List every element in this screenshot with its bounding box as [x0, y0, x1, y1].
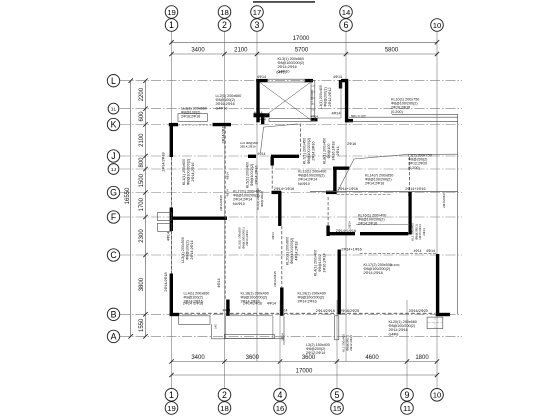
grid line vertical axis x=171.5: [171, 32, 173, 389]
lintel LL1 box at K opening: [178, 114, 207, 122]
svg-text:18: 18: [220, 404, 229, 413]
svg-text:4Φ14: 4Φ14: [271, 232, 275, 240]
svg-text:10: 10: [433, 21, 442, 30]
svg-text:2Φ14+1Φ16: 2Φ14+1Φ16: [341, 247, 361, 251]
svg-text:G4Φ8: G4Φ8: [389, 332, 399, 336]
grid line horizontal axis A: [120, 335, 462, 337]
svg-text:10: 10: [433, 391, 442, 400]
axis circle left A: [107, 330, 119, 342]
svg-text:3600: 3600: [302, 355, 316, 361]
svg-text:17: 17: [253, 8, 262, 17]
right balcony centerline v: [434, 317, 436, 328]
building right edge: [457, 114, 459, 314]
svg-text:2Φ14;2Φ16: 2Φ14;2Φ16: [358, 222, 377, 226]
svg-text:4Φ14: 4Φ14: [267, 302, 276, 306]
grid line horizontal axis C: [120, 254, 462, 256]
wall near axis-3 horizontal: [254, 113, 270, 117]
svg-text:6: 6: [344, 20, 349, 30]
svg-text:2Φ12;2Φ12: 2Φ12;2Φ12: [328, 87, 332, 106]
svg-text:2: 2: [222, 390, 227, 400]
svg-text:1J: 1J: [111, 167, 117, 173]
svg-text:4Φ14: 4Φ14: [226, 189, 230, 197]
svg-text:1: 1: [169, 390, 174, 400]
svg-text:15: 15: [333, 404, 342, 413]
svg-text:2Φ14/2Φ16: 2Φ14/2Φ16: [221, 124, 225, 143]
svg-text:2300: 2300: [139, 229, 145, 243]
svg-text:N4Φ10: N4Φ10: [298, 182, 310, 186]
svg-text:(0.200): (0.200): [408, 166, 420, 170]
wall axis-1 upper: [170, 123, 173, 157]
grid line horizontal axis 1L: [120, 108, 462, 110]
axis circle top 6: [340, 19, 353, 32]
stair box2 bottom edge: [315, 117, 341, 119]
svg-text:3400: 3400: [191, 48, 205, 54]
wall stair box2 top corner: [341, 79, 348, 82]
dim line left spans: [145, 81, 147, 337]
svg-text:2Φ16/2Φ25: 2Φ16/2Φ25: [340, 309, 359, 313]
wall axis-4 upper: [278, 191, 281, 226]
axis circle bottom 11: [401, 402, 414, 415]
svg-text:2: 2: [222, 20, 227, 30]
svg-text:3800: 3800: [139, 277, 145, 291]
axis circle bottom 19: [165, 402, 178, 415]
svg-text:14: 14: [342, 8, 351, 17]
svg-text:9: 9: [405, 390, 410, 400]
svg-text:LL3(1) 200x500: LL3(1) 200x500: [181, 237, 185, 263]
svg-text:Φ8@200(1): Φ8@200(1): [324, 87, 328, 106]
svg-text:2100: 2100: [234, 48, 248, 54]
axis circle bottom 18: [218, 402, 231, 415]
wall K-row right of opening: [213, 123, 232, 126]
svg-text:1700: 1700: [139, 197, 145, 211]
svg-text:4Φ14: 4Φ14: [311, 115, 319, 119]
svg-text:B: B: [111, 309, 117, 319]
grid line vertical axis x=437: [436, 32, 438, 389]
wall F-area wall right part: [360, 232, 408, 235]
svg-text:142: 142: [214, 324, 218, 329]
svg-text:5700: 5700: [295, 48, 309, 54]
svg-text:19: 19: [167, 8, 176, 17]
svg-text:800: 800: [139, 157, 145, 168]
svg-text:2Φ14;2Φ16: 2Φ14;2Φ16: [365, 182, 384, 186]
dim line top total 17000: [172, 41, 438, 43]
wall J-row left: [248, 155, 256, 158]
wall axis-2 bottom: [226, 300, 229, 316]
svg-text:2Φ14/2Φ18: 2Φ14/2Φ18: [162, 152, 166, 171]
svg-text:3600: 3600: [246, 355, 260, 361]
svg-text:2Φ14/2Φ16: 2Φ14/2Φ16: [442, 192, 446, 208]
right balcony centerline h: [427, 322, 443, 324]
svg-text:4Φ14: 4Φ14: [426, 249, 435, 253]
svg-text:5800: 5800: [385, 48, 399, 54]
axis circle left K: [107, 118, 119, 130]
axis circle bottom 15: [331, 402, 344, 415]
svg-text:11: 11: [403, 404, 411, 413]
svg-text:4Φ14: 4Φ14: [257, 75, 266, 79]
axis circle bottom 10: [431, 389, 444, 402]
axis circle bottom 9: [401, 389, 414, 402]
svg-text:4: 4: [278, 390, 283, 400]
svg-text:6Φ14: 6Φ14: [259, 118, 267, 122]
svg-text:4Φ14;2Φ18: 4Φ14;2Φ18: [295, 241, 299, 260]
grid line vertical lower axis x=407: [406, 300, 408, 388]
svg-text:Φ8@100/200(2): Φ8@100/200(2): [290, 238, 294, 265]
svg-text:Φ8@100/200(2): Φ8@100/200(2): [307, 138, 311, 165]
svg-text:2Φ14: 2Φ14: [281, 333, 285, 341]
svg-text:3: 3: [255, 20, 260, 30]
strip below B mid: [335, 316, 339, 340]
B-row dashed beam 3: [284, 312, 337, 314]
svg-text:2Φ14;2Φ16: 2Φ14;2Φ16: [191, 162, 195, 181]
svg-text:16: 16: [276, 404, 285, 413]
svg-text:2Φ14+1Φ16: 2Φ14+1Φ16: [405, 187, 425, 191]
axis circle left 1L: [108, 103, 119, 114]
svg-text:4Φ14: 4Φ14: [332, 112, 341, 116]
A-row stub right: [274, 338, 284, 340]
wall mid vertical near G: [333, 167, 336, 194]
grid line horizontal axis L: [120, 80, 462, 82]
svg-text:16550: 16550: [125, 187, 131, 204]
svg-text:19: 19: [167, 404, 176, 413]
svg-text:4Φ14: 4Φ14: [414, 249, 422, 253]
axis circle left C: [107, 249, 119, 261]
wall J-row stub down: [271, 156, 274, 165]
svg-text:2Φ14+1Φ16: 2Φ14+1Φ16: [274, 187, 294, 191]
svg-text:N4Φ10: N4Φ10: [233, 202, 245, 206]
svg-text:2Φ14/2Φ16: 2Φ14/2Φ16: [316, 309, 335, 313]
svg-text:4Φ14: 4Φ14: [223, 309, 231, 313]
wall jog bottom of mid vertical: [326, 191, 337, 194]
axis circle top 1: [165, 19, 178, 32]
wall jog top of mid vertical: [333, 166, 349, 169]
J-level beam polyline right: [337, 154, 458, 193]
axis circle left B: [107, 308, 119, 320]
dashed hidden wall 4: [271, 166, 273, 189]
svg-text:2Φ14+1Φ16: 2Φ14+1Φ16: [338, 187, 358, 191]
axis-1 protrusion box lower: [158, 223, 172, 231]
dashed hidden wall 6: [300, 124, 302, 156]
B-row dashed beam 2: [230, 312, 279, 314]
svg-text:C: C: [110, 250, 117, 260]
dim line top spans 3400/2100/5700/5800: [172, 53, 438, 55]
wall K-row left segment: [169, 123, 178, 126]
wall axis-10 vertical: [436, 254, 439, 314]
K beam right top: [392, 113, 458, 115]
axis circle top 14: [340, 6, 353, 19]
dashed hidden wall 7: [327, 197, 329, 226]
svg-text:1L: 1L: [111, 106, 117, 112]
svg-text:2Φ14;2Φ14: 2Φ14;2Φ14: [190, 240, 194, 259]
dashed line C-area right: [360, 252, 437, 254]
axis circle bottom 4: [274, 389, 287, 402]
svg-text:L1 200x400: L1 200x400: [310, 89, 314, 104]
wall stair bottom partition corner: [311, 118, 318, 121]
grid line vertical lower axis x=337: [336, 300, 338, 388]
wall stair box2 right stub: [339, 80, 342, 89]
axis circle top 18: [218, 6, 231, 19]
svg-text:KL5(1) 200x400: KL5(1) 200x400: [246, 162, 250, 188]
wall G-row connector: [272, 191, 282, 194]
svg-text:2Φ14;2Φ16: 2Φ14;2Φ16: [255, 165, 259, 184]
svg-text:2Φ16: 2Φ16: [347, 142, 356, 146]
svg-text:KL1(1) 200x600: KL1(1) 200x600: [182, 159, 186, 185]
dashed hidden wall 8: [409, 157, 411, 192]
axis circle left J: [107, 150, 119, 162]
wall stub above F-wall right: [326, 226, 329, 237]
wall axis-6 bottom jog: [347, 119, 353, 122]
svg-text:4Φ14: 4Φ14: [254, 111, 263, 115]
wall axis-1 middle: [170, 208, 173, 232]
svg-text:2Φ14/2Φ18: 2Φ14/2Φ18: [273, 271, 277, 287]
svg-text:2Φ14/2Φ18: 2Φ14/2Φ18: [164, 272, 168, 291]
axis circle left F: [107, 211, 119, 223]
wall near axis-3 vertical jog: [261, 116, 264, 124]
dashed line below G right: [337, 193, 392, 195]
dim line bottom total 17000: [172, 374, 438, 376]
svg-text:1500: 1500: [139, 173, 145, 187]
svg-text:2Φ14 /2Φ16: 2Φ14 /2Φ16: [183, 302, 203, 306]
stair mid partition: [311, 81, 315, 121]
svg-text:1Φ16;1Φ18: 1Φ16;1Φ18: [332, 141, 336, 160]
axis circle top 10: [431, 19, 444, 32]
svg-text:1800: 1800: [415, 355, 429, 361]
svg-text:2Φ14: 2Φ14: [347, 221, 351, 229]
axis circle bottom 5: [331, 389, 344, 402]
svg-text:F: F: [111, 212, 117, 222]
stair box2 right edge: [340, 81, 342, 118]
svg-text:18: 18: [220, 8, 229, 17]
svg-text:600: 600: [139, 111, 145, 122]
axis circle top 17: [251, 6, 264, 19]
dashed hidden wall 2: [171, 231, 173, 274]
svg-text:1Φ16;2Φ14: 1Φ16;2Φ14: [323, 253, 327, 272]
svg-text:2Φ14;2Φ16: 2Φ14;2Φ16: [298, 300, 317, 304]
svg-text:KL4(1) 200x400: KL4(1) 200x400: [314, 250, 318, 276]
grid line vertical axis x=346: [345, 32, 347, 362]
svg-text:5: 5: [335, 390, 340, 400]
svg-text:G4Φ10: G4Φ10: [216, 106, 228, 110]
vertical at x284 below B: [283, 316, 285, 345]
wall J-row main: [271, 155, 299, 158]
svg-text:2Φ14/2Φ18: 2Φ14/2Φ18: [219, 195, 223, 211]
axis circle bottom 2: [218, 389, 231, 402]
wall axis-1 B-row corner: [170, 313, 179, 316]
wall F-row: [170, 216, 227, 219]
title bar fragment top: [253, 1, 315, 3]
lower room outline: [226, 316, 273, 339]
thin line beside x410 wall: [408, 196, 410, 233]
svg-text:(0.200): (0.200): [390, 263, 400, 267]
svg-text:2Φ14;2Φ18: 2Φ14;2Φ18: [364, 271, 383, 275]
svg-text:2Φ16/2Φ20: 2Φ16/2Φ20: [409, 309, 428, 313]
axis circle left 1J: [108, 164, 119, 175]
wall axis-6 upper: [345, 79, 348, 122]
svg-text:2Φ16;2Φ16: 2Φ16;2Φ16: [181, 115, 200, 119]
svg-text:2Φ14+1Φ16: 2Φ14+1Φ16: [336, 229, 356, 233]
wall axis-4 lower: [280, 288, 283, 316]
stair top beam: [268, 79, 306, 82]
K beam right mid: [349, 116, 458, 118]
grid line horizontal axis B: [120, 313, 462, 315]
K opening dashed line: [178, 124, 213, 126]
svg-text:Φ8@100(2): Φ8@100(2): [260, 191, 264, 207]
grid line horizontal axis 1J: [120, 168, 462, 170]
B-row dashed beam 1: [179, 312, 226, 314]
axis-1 protrusion box upper: [158, 212, 172, 220]
svg-text:G: G: [110, 188, 117, 198]
svg-text:1: 1: [169, 20, 174, 30]
svg-text:Φ8@100/2: Φ8@100/2: [318, 254, 322, 272]
axis circle top 2: [218, 19, 231, 32]
svg-text:4Φ14: 4Φ14: [167, 232, 171, 241]
wall vertical at x410: [408, 192, 411, 235]
axis circle top 3: [251, 19, 264, 32]
axis circle bottom 16: [274, 402, 287, 415]
svg-text:4Φ14: 4Φ14: [333, 75, 342, 79]
svg-text:2Φ12;2Φ14: 2Φ12;2Φ14: [306, 351, 325, 355]
grid line vertical axis x=224.5: [224, 32, 226, 389]
svg-text:L: L: [111, 76, 116, 86]
svg-text:5KL3 3/2: 5KL3 3/2: [351, 114, 366, 118]
wall axis-1 lower: [170, 274, 173, 316]
axis circle left L: [107, 75, 119, 87]
svg-text:Φ8@100(2): Φ8@100(2): [186, 240, 190, 259]
axis circle bottom 1: [165, 389, 178, 402]
svg-text:G4Φ10: G4Φ10: [276, 71, 287, 75]
svg-text:KL20(1) 200x600: KL20(1) 200x600: [286, 237, 290, 265]
svg-text:Φ8@100/200(2): Φ8@100/200(2): [187, 159, 191, 186]
wall F-area wall left part: [327, 232, 356, 235]
svg-text:17000: 17000: [293, 36, 310, 42]
dashed hidden wall 1: [171, 157, 173, 208]
svg-text:Φ6@100: Φ6@100: [327, 144, 331, 159]
balcony step vertical: [210, 324, 212, 339]
grid line horizontal axis J: [120, 155, 462, 157]
stair ramp leader polyline: [260, 124, 298, 153]
svg-text:2Φ14/2Φ16: 2Φ14/2Φ16: [243, 302, 262, 306]
svg-text:2200: 2200: [139, 87, 145, 101]
grid line horizontal axis F: [120, 216, 462, 218]
svg-text:3400: 3400: [191, 355, 205, 361]
wall stair top-right corner: [305, 79, 313, 82]
svg-text:4Φ14: 4Φ14: [280, 309, 288, 313]
right balcony box: [427, 317, 443, 328]
axis circle left G: [107, 186, 119, 198]
svg-text:4Φ14: 4Φ14: [226, 172, 230, 180]
dim line left total 16550: [130, 81, 132, 337]
svg-text:A: A: [111, 332, 117, 342]
dashed hidden wall 5: [281, 226, 283, 288]
A-row beam strip: [224, 334, 274, 338]
grid line vertical lower axis x=280: [279, 300, 281, 388]
svg-text:2Φ12;3Φ14: 2Φ12;3Φ14: [349, 335, 353, 351]
K beam right bottom: [349, 120, 458, 122]
svg-text:J: J: [111, 151, 115, 161]
stair partition treads: [311, 85, 315, 87]
svg-text:4Φ14: 4Φ14: [217, 278, 221, 287]
svg-text:2Φ14: 2Φ14: [336, 146, 340, 155]
stair X diagonal 2: [260, 82, 311, 119]
svg-text:4Φ14: 4Φ14: [258, 152, 266, 156]
svg-text:2Φ14;3Φ16: 2Φ14;3Φ16: [312, 141, 316, 160]
stair bottom beam: [269, 119, 311, 122]
wall axis-5 vertical: [338, 250, 341, 315]
grid line horizontal axis G: [120, 192, 462, 194]
grid line horizontal axis K: [120, 124, 462, 126]
svg-text:Φ8@100/2(2): Φ8@100/2(2): [250, 164, 254, 186]
wall stair left (axis 3): [256, 79, 259, 122]
svg-text:2Φ14;2Φ16: 2Φ14;2Φ16: [245, 230, 249, 246]
svg-text:KL7(1) 200x450: KL7(1) 200x450: [303, 138, 307, 164]
axis circle top 19: [165, 6, 178, 19]
B-row dashed beam 4: [342, 312, 436, 314]
wall B-row right corner: [436, 313, 450, 316]
stair X diagonal 1: [260, 82, 311, 119]
svg-text:L1(1) 200x400: L1(1) 200x400: [319, 85, 323, 109]
dashed hidden wall 3: [224, 126, 226, 300]
balcony step left: [179, 316, 210, 325]
svg-text:K: K: [111, 120, 117, 130]
svg-text:1550: 1550: [139, 318, 145, 332]
svg-text:(0.200): (0.200): [391, 110, 403, 114]
wall stair top-left corner: [256, 79, 267, 82]
svg-text:4600: 4600: [365, 355, 379, 361]
dim line bottom spans 3400/3600/3600/4600/1800: [172, 361, 438, 363]
thin line above F-area wall: [356, 224, 408, 226]
svg-text:KL8(1) 200x450: KL8(1) 200x450: [323, 138, 327, 164]
svg-text:17000: 17000: [296, 369, 313, 375]
balcony step horizontal: [211, 338, 225, 340]
svg-text:2Φ14: 2Φ14: [422, 228, 426, 236]
G beam line right: [310, 190, 458, 192]
svg-text:2Φ14;2Φ16: 2Φ14;2Φ16: [240, 145, 256, 149]
grid line vertical axis x=257: [256, 32, 258, 362]
svg-text:2100: 2100: [139, 133, 145, 147]
